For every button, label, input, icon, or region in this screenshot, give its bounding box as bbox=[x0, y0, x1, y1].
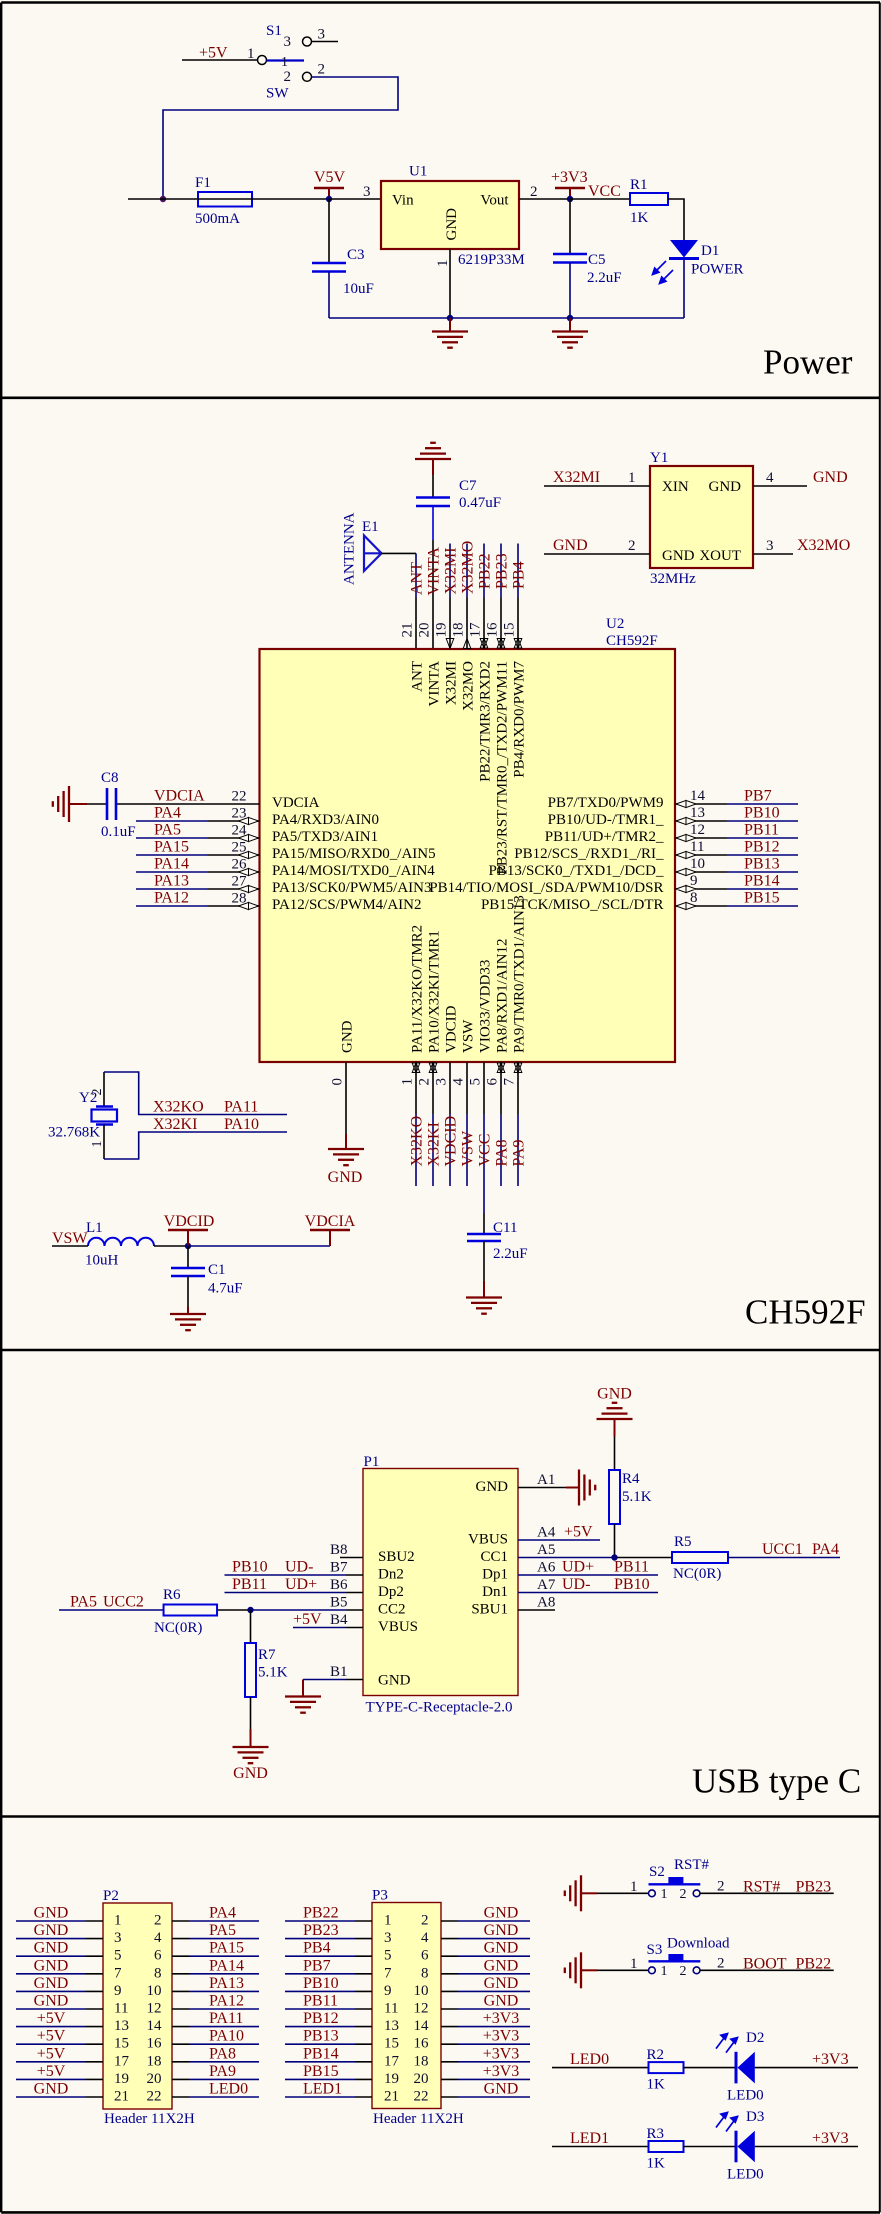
svg-text:2: 2 bbox=[421, 1913, 429, 1929]
ground U2 pin0 bbox=[328, 1134, 364, 1165]
svg-text:3: 3 bbox=[766, 538, 774, 554]
svg-text:PA11/X32KO/TMR2: PA11/X32KO/TMR2 bbox=[410, 925, 426, 1053]
svg-text:E1: E1 bbox=[362, 519, 379, 535]
wire U2 pin 4 stub bbox=[466, 1062, 468, 1186]
U2 pin 5 bbox=[468, 960, 494, 1086]
svg-text:22: 22 bbox=[147, 2089, 162, 2105]
LED D3 bbox=[716, 2109, 764, 2183]
svg-text:32MHz: 32MHz bbox=[650, 571, 696, 587]
svg-text:14: 14 bbox=[414, 2018, 430, 2034]
svg-text:GND: GND bbox=[34, 1922, 69, 1939]
U2 pin 13 PB10 bbox=[548, 805, 798, 829]
svg-text:27: 27 bbox=[232, 874, 248, 890]
svg-text:5: 5 bbox=[384, 1948, 392, 1964]
svg-text:GND: GND bbox=[34, 2081, 69, 2098]
svg-text:15: 15 bbox=[114, 2036, 129, 2052]
svg-text:GND: GND bbox=[484, 2081, 519, 2098]
U2 pin 19 bbox=[434, 623, 460, 706]
svg-text:+5V: +5V bbox=[564, 1524, 593, 1541]
wire S1 pin3 stub bbox=[312, 41, 339, 43]
svg-text:PA10/X32KI/TMR1: PA10/X32KI/TMR1 bbox=[427, 930, 443, 1053]
svg-text:Header 11X2H: Header 11X2H bbox=[104, 2111, 195, 2127]
ground below C1 bbox=[170, 1307, 206, 1330]
P3 pin 21 net LED1 bbox=[285, 2081, 399, 2105]
svg-text:4: 4 bbox=[421, 1930, 429, 1946]
wire left stub bbox=[128, 198, 198, 200]
svg-text:PB7: PB7 bbox=[744, 788, 772, 805]
ground left of S3 bbox=[565, 1952, 597, 1988]
svg-text:PB4: PB4 bbox=[303, 1940, 331, 1957]
svg-text:1K: 1K bbox=[647, 2077, 666, 2093]
svg-text:PA11: PA11 bbox=[224, 1099, 258, 1116]
P1 pin B1 GND bbox=[303, 1664, 411, 1689]
crystal Y2 32.768K bbox=[48, 1072, 117, 1159]
svg-text:10: 10 bbox=[690, 856, 705, 872]
P3 pin 18 net +3V3 bbox=[414, 2045, 531, 2069]
inductor L1 10uH bbox=[52, 1220, 154, 1269]
svg-text:GND: GND bbox=[34, 1993, 69, 2010]
wire +5V to S1 pin1 bbox=[182, 59, 258, 61]
svg-text:UCC1: UCC1 bbox=[762, 1541, 803, 1558]
ground below U1 bbox=[432, 318, 468, 348]
svg-text:Dn1: Dn1 bbox=[482, 1584, 508, 1600]
svg-text:21: 21 bbox=[400, 623, 416, 638]
P3 pin 20 net +3V3 bbox=[414, 2063, 531, 2087]
wire VDCID to VDCIA bbox=[188, 1245, 330, 1247]
wire Y2 pin1 to X32KI bbox=[104, 1132, 287, 1159]
ground above C7 bbox=[415, 443, 451, 475]
svg-text:4.7uF: 4.7uF bbox=[208, 1281, 243, 1297]
svg-text:VDCID: VDCID bbox=[444, 1005, 460, 1053]
svg-text:9: 9 bbox=[384, 1983, 392, 1999]
ground right of A1 bbox=[566, 1470, 595, 1506]
svg-text:20: 20 bbox=[414, 2071, 429, 2087]
junction at F1 input bbox=[160, 196, 166, 202]
wire U1 pin1 down bbox=[449, 249, 451, 318]
svg-text:B6: B6 bbox=[330, 1577, 348, 1593]
U2 pin 1 bbox=[400, 925, 426, 1086]
P2 pin 19 net +5V bbox=[16, 2063, 129, 2087]
svg-text:Download: Download bbox=[667, 1936, 730, 1952]
P1 pin B8 SBU2 bbox=[330, 1542, 415, 1565]
resistor R3 1K bbox=[647, 2126, 684, 2172]
capacitor C3 bbox=[312, 199, 374, 318]
svg-text:R6: R6 bbox=[163, 1587, 181, 1603]
svg-text:LED0: LED0 bbox=[209, 2081, 248, 2098]
P3 pin 1 net PB22 bbox=[285, 1905, 392, 1929]
wire D3 to +3V3 bbox=[755, 2146, 858, 2148]
wire junction to U1 pin3 bbox=[329, 198, 381, 200]
svg-text:20: 20 bbox=[147, 2071, 162, 2087]
svg-text:PA13: PA13 bbox=[209, 1975, 244, 1992]
switch S3 Download bbox=[630, 1954, 725, 1979]
P3 pin 6 net GND bbox=[421, 1940, 530, 1964]
P3 pin 3 net PB23 bbox=[285, 1922, 392, 1946]
svg-text:1: 1 bbox=[435, 260, 451, 268]
svg-text:PA9/TMR0/TXD1/AIN13: PA9/TMR0/TXD1/AIN13 bbox=[512, 895, 528, 1053]
svg-text:1: 1 bbox=[384, 1913, 392, 1929]
U2 pin 27 PA13 bbox=[136, 873, 431, 897]
svg-text:PA10: PA10 bbox=[209, 2028, 244, 2045]
svg-text:B8: B8 bbox=[330, 1542, 348, 1558]
U2 pin 20 bbox=[417, 623, 443, 707]
P2 pin 20 net PA9 bbox=[147, 2063, 260, 2087]
svg-text:VINTA: VINTA bbox=[427, 661, 443, 707]
svg-text:0.1uF: 0.1uF bbox=[101, 824, 136, 840]
svg-text:C8: C8 bbox=[101, 770, 119, 786]
svg-text:GND: GND bbox=[34, 1905, 69, 1922]
wire S3 pin2 to net bbox=[700, 1969, 834, 1971]
svg-text:XIN: XIN bbox=[662, 479, 689, 495]
svg-text:2.2uF: 2.2uF bbox=[493, 1246, 528, 1262]
svg-text:VSW: VSW bbox=[52, 1230, 88, 1247]
svg-text:24: 24 bbox=[232, 823, 248, 839]
svg-text:A8: A8 bbox=[537, 1595, 555, 1611]
U2 pin 22 VDCIA bbox=[117, 788, 320, 812]
P3 pin 16 net +3V3 bbox=[414, 2028, 531, 2052]
svg-text:R7: R7 bbox=[258, 1647, 276, 1663]
wire gnd to R4 bbox=[614, 1437, 616, 1471]
svg-text:GND: GND bbox=[484, 1975, 519, 1992]
P1 pin A6 Dp1 bbox=[482, 1559, 658, 1583]
wire F1 to junction bbox=[252, 198, 329, 200]
resistor R6 NC(0R) bbox=[154, 1587, 217, 1636]
svg-text:+3V3: +3V3 bbox=[483, 2010, 520, 2027]
svg-text:26: 26 bbox=[232, 857, 248, 873]
svg-text:3: 3 bbox=[363, 184, 371, 200]
svg-text:PA15: PA15 bbox=[209, 1940, 244, 1957]
U2 pin 2 bbox=[417, 930, 443, 1085]
P3 pin 8 net GND bbox=[421, 1957, 530, 1981]
wire S2 pin2 to net bbox=[700, 1892, 834, 1894]
resistor R4 5.1K bbox=[609, 1470, 652, 1524]
svg-text:6219P33M: 6219P33M bbox=[458, 252, 525, 268]
U2 pin 16 bbox=[485, 622, 511, 875]
svg-text:PA8: PA8 bbox=[209, 2045, 236, 2062]
svg-text:C5: C5 bbox=[588, 252, 606, 268]
P1 pin B7 Dn2 bbox=[225, 1559, 404, 1583]
svg-text:28: 28 bbox=[232, 891, 247, 907]
wire gnd to S3 pin1 bbox=[597, 1969, 648, 1971]
svg-text:CC2: CC2 bbox=[378, 1602, 406, 1618]
P3 pin 12 net GND bbox=[414, 1993, 531, 2017]
bottom power rail wire bbox=[329, 317, 684, 319]
svg-text:PB4: PB4 bbox=[511, 561, 528, 589]
svg-text:PA4: PA4 bbox=[812, 1541, 839, 1558]
svg-text:TYPE-C-Receptacle-2.0: TYPE-C-Receptacle-2.0 bbox=[366, 1700, 513, 1716]
resistor R1 1K bbox=[630, 177, 668, 226]
svg-text:Vout: Vout bbox=[480, 193, 509, 209]
svg-text:VCC: VCC bbox=[477, 1134, 494, 1167]
U2 pin 24 PA5 bbox=[136, 822, 378, 846]
ground left of C8 bbox=[53, 786, 87, 822]
power flag VDCID bbox=[168, 1230, 208, 1246]
svg-text:CH592F: CH592F bbox=[745, 1293, 866, 1332]
svg-text:1: 1 bbox=[661, 1887, 668, 1902]
svg-text:17: 17 bbox=[384, 2053, 400, 2069]
P1 pin A4 VBUS bbox=[468, 1524, 600, 1548]
P2 pin 7 net GND bbox=[16, 1957, 122, 1981]
svg-text:2: 2 bbox=[90, 1089, 105, 1096]
svg-text:PB7/TXD0/PWM9: PB7/TXD0/PWM9 bbox=[548, 795, 664, 811]
P2 pin 16 net PA10 bbox=[147, 2028, 260, 2052]
P2 pin 9 net GND bbox=[16, 1975, 122, 1999]
svg-text:7: 7 bbox=[114, 1965, 122, 1981]
U2 pin 11 PB12 bbox=[514, 839, 798, 863]
antenna E1 bbox=[342, 512, 382, 585]
P2 pin 2 net PA4 bbox=[154, 1905, 259, 1929]
svg-text:X32KI: X32KI bbox=[426, 1122, 443, 1166]
P2 pin 1 net GND bbox=[16, 1905, 122, 1929]
svg-text:ANT: ANT bbox=[410, 661, 426, 692]
svg-text:C3: C3 bbox=[347, 247, 365, 263]
svg-text:R4: R4 bbox=[622, 1471, 640, 1487]
svg-text:2: 2 bbox=[154, 1913, 162, 1929]
switch S1 bbox=[247, 23, 325, 102]
wire U2 pin 5 stub bbox=[483, 1062, 485, 1213]
P1 pin B4 VBUS bbox=[293, 1611, 418, 1635]
svg-text:PB11: PB11 bbox=[744, 822, 779, 839]
svg-text:22: 22 bbox=[414, 2089, 429, 2105]
svg-text:GND: GND bbox=[34, 1940, 69, 1957]
svg-text:F1: F1 bbox=[195, 175, 211, 191]
regulator U1 6219P33M bbox=[381, 164, 525, 269]
P2 pin 11 net GND bbox=[16, 1993, 128, 2017]
svg-text:500mA: 500mA bbox=[195, 211, 240, 227]
svg-text:PB12: PB12 bbox=[744, 839, 780, 856]
svg-text:UD+: UD+ bbox=[285, 1576, 317, 1593]
wire D2 to +3V3 bbox=[755, 2067, 858, 2069]
wire R5 to UCC1 bbox=[728, 1557, 840, 1559]
wire R2 to D2 bbox=[684, 2067, 736, 2069]
svg-text:+3V3: +3V3 bbox=[551, 169, 588, 186]
svg-text:PA12: PA12 bbox=[154, 890, 189, 907]
svg-text:2: 2 bbox=[628, 538, 636, 554]
svg-text:VDCIA: VDCIA bbox=[272, 795, 320, 811]
svg-text:C1: C1 bbox=[208, 1262, 226, 1278]
svg-text:12: 12 bbox=[147, 2001, 162, 2017]
svg-text:VDCID: VDCID bbox=[164, 1213, 215, 1230]
svg-text:P1: P1 bbox=[364, 1454, 380, 1470]
P3 pin 4 net GND bbox=[421, 1922, 530, 1946]
svg-text:+3V3: +3V3 bbox=[812, 2130, 849, 2147]
svg-text:VSW: VSW bbox=[460, 1130, 477, 1166]
svg-text:PB23: PB23 bbox=[494, 553, 511, 589]
svg-text:2: 2 bbox=[680, 1964, 687, 1979]
P3 pin 17 net PB14 bbox=[285, 2045, 400, 2069]
svg-text:ANT: ANT bbox=[409, 562, 426, 595]
svg-text:GND: GND bbox=[378, 1673, 411, 1689]
capacitor C11 2.2uF bbox=[467, 1213, 528, 1281]
svg-text:PA14/MOSI/TXD0_/AIN4: PA14/MOSI/TXD0_/AIN4 bbox=[272, 863, 435, 879]
svg-text:S2: S2 bbox=[649, 1864, 665, 1880]
P2 pin 6 net PA15 bbox=[154, 1940, 259, 1964]
svg-text:GND: GND bbox=[34, 1975, 69, 1992]
svg-text:V5V: V5V bbox=[314, 169, 346, 186]
svg-text:GND: GND bbox=[476, 1479, 509, 1495]
svg-text:B5: B5 bbox=[330, 1595, 348, 1611]
svg-text:S1: S1 bbox=[266, 23, 282, 39]
svg-text:3: 3 bbox=[434, 1078, 450, 1086]
U2 pin 15 bbox=[502, 623, 528, 778]
Y1 pin 2 wire net GND bbox=[544, 553, 650, 555]
P2 pin 5 net GND bbox=[16, 1940, 122, 1964]
svg-text:C7: C7 bbox=[459, 478, 477, 494]
svg-text:17: 17 bbox=[468, 622, 484, 638]
svg-text:LED1: LED1 bbox=[303, 2081, 342, 2098]
svg-text:SBU1: SBU1 bbox=[471, 1602, 508, 1618]
svg-text:PB11: PB11 bbox=[232, 1576, 267, 1593]
svg-text:Y1: Y1 bbox=[650, 450, 668, 466]
wire U1 pin2 to VCC node bbox=[519, 198, 570, 200]
svg-text:1: 1 bbox=[247, 46, 255, 62]
svg-text:R3: R3 bbox=[647, 2126, 665, 2142]
wire net PB4 to U2 top bbox=[517, 544, 519, 650]
wire R1 to D1 bbox=[668, 199, 684, 240]
P3 pin 10 net GND bbox=[414, 1975, 531, 1999]
svg-text:L1: L1 bbox=[86, 1220, 103, 1236]
svg-text:UCC2: UCC2 bbox=[103, 1594, 144, 1611]
svg-text:PB22: PB22 bbox=[303, 1905, 339, 1922]
svg-text:11: 11 bbox=[384, 2001, 398, 2017]
svg-text:PB12: PB12 bbox=[303, 2010, 339, 2027]
svg-text:B4: B4 bbox=[330, 1612, 348, 1628]
wire D1 to rail bbox=[683, 260, 685, 318]
svg-text:15: 15 bbox=[502, 623, 518, 638]
svg-text:X32KO: X32KO bbox=[153, 1099, 204, 1116]
svg-text:ANTENNA: ANTENNA bbox=[342, 512, 358, 585]
svg-text:+5V: +5V bbox=[37, 2045, 66, 2062]
svg-text:VDCIA: VDCIA bbox=[154, 788, 205, 805]
svg-text:S3: S3 bbox=[647, 1942, 663, 1958]
svg-text:X32KI: X32KI bbox=[153, 1116, 197, 1133]
svg-text:PA13/SCK0/PWM5/AIN3: PA13/SCK0/PWM5/AIN3 bbox=[272, 880, 431, 896]
svg-text:R1: R1 bbox=[630, 177, 648, 193]
wire gnd to S2 pin1 bbox=[597, 1892, 648, 1894]
svg-text:18: 18 bbox=[147, 2053, 162, 2069]
svg-text:19: 19 bbox=[114, 2071, 129, 2087]
svg-text:19: 19 bbox=[434, 623, 450, 638]
svg-text:16: 16 bbox=[414, 2036, 430, 2052]
wire LED1 to R3 bbox=[552, 2146, 649, 2148]
P2 pin 15 net +5V bbox=[16, 2028, 129, 2052]
svg-text:2: 2 bbox=[417, 1078, 433, 1086]
svg-text:RST#: RST# bbox=[674, 1857, 710, 1873]
svg-text:Vin: Vin bbox=[392, 193, 414, 209]
wire C7 to U2 VINTA bbox=[432, 506, 434, 649]
U2 pin 0 bbox=[330, 1020, 356, 1085]
svg-text:12: 12 bbox=[690, 822, 705, 838]
svg-text:PA12: PA12 bbox=[209, 1993, 244, 2010]
svg-text:PA14: PA14 bbox=[209, 1957, 244, 1974]
junction V5V bbox=[326, 196, 332, 202]
svg-text:GND: GND bbox=[484, 1957, 519, 1974]
wire R3 to D3 bbox=[684, 2146, 736, 2148]
P1 pin B5 CC2 bbox=[59, 1594, 406, 1618]
P2 pin 3 net GND bbox=[16, 1922, 122, 1946]
P1 pin A7 Dn1 bbox=[482, 1576, 658, 1600]
P3 pin 14 net +3V3 bbox=[414, 2010, 531, 2034]
svg-text:8: 8 bbox=[690, 890, 698, 906]
ground below C5 bbox=[552, 318, 588, 348]
wire net X32MI to U2 top bbox=[449, 544, 451, 650]
U2 pin 3 bbox=[434, 1005, 460, 1085]
svg-text:Dn2: Dn2 bbox=[378, 1567, 404, 1583]
svg-text:Header 11X2H: Header 11X2H bbox=[373, 2111, 464, 2127]
P2 pin 21 net GND bbox=[16, 2081, 129, 2105]
svg-text:VDCIA: VDCIA bbox=[305, 1213, 356, 1230]
svg-text:16: 16 bbox=[485, 622, 501, 638]
USB receptacle P1 bbox=[363, 1454, 518, 1716]
svg-text:PA9: PA9 bbox=[511, 1140, 528, 1167]
svg-text:1: 1 bbox=[661, 1964, 668, 1979]
svg-text:LED1: LED1 bbox=[570, 2130, 609, 2147]
svg-text:Dp2: Dp2 bbox=[378, 1584, 404, 1600]
P2 pin 12 net PA12 bbox=[147, 1993, 260, 2017]
svg-text:PA14: PA14 bbox=[154, 856, 189, 873]
svg-text:14: 14 bbox=[147, 2018, 163, 2034]
svg-text:A7: A7 bbox=[537, 1577, 556, 1593]
svg-text:A5: A5 bbox=[537, 1542, 555, 1558]
svg-text:+3V3: +3V3 bbox=[483, 2028, 520, 2045]
svg-text:PB22: PB22 bbox=[477, 553, 494, 589]
svg-text:PB23/RST/TMR0_/TXD2/PWM11: PB23/RST/TMR0_/TXD2/PWM11 bbox=[495, 661, 511, 875]
svg-text:1: 1 bbox=[628, 470, 636, 486]
svg-text:POWER: POWER bbox=[691, 262, 744, 278]
svg-text:13: 13 bbox=[690, 805, 705, 821]
svg-text:+5V: +5V bbox=[37, 2010, 66, 2027]
wire S1 pin2 to fuse line bbox=[163, 77, 398, 199]
svg-text:+5V: +5V bbox=[199, 45, 228, 62]
svg-text:LED0: LED0 bbox=[727, 2167, 764, 2183]
svg-text:PA5: PA5 bbox=[209, 1922, 236, 1939]
svg-text:4: 4 bbox=[451, 1078, 467, 1086]
crystal Y1 32MHz bbox=[650, 450, 753, 587]
svg-text:6: 6 bbox=[485, 1078, 501, 1086]
svg-text:A4: A4 bbox=[537, 1525, 556, 1541]
svg-text:PA8: PA8 bbox=[494, 1140, 511, 1167]
svg-text:PB10: PB10 bbox=[744, 805, 780, 822]
svg-text:X32MO: X32MO bbox=[460, 541, 477, 594]
svg-text:0.47uF: 0.47uF bbox=[459, 495, 501, 511]
U2 pin 9 PB14 bbox=[429, 873, 798, 897]
svg-text:PA10: PA10 bbox=[224, 1116, 259, 1133]
capacitor C1 4.7uF bbox=[171, 1246, 243, 1307]
svg-text:CH592F: CH592F bbox=[606, 633, 658, 649]
wire VCC to R1 bbox=[570, 198, 630, 200]
svg-text:GND: GND bbox=[662, 548, 695, 564]
P2 pin 18 net PA8 bbox=[147, 2045, 260, 2069]
P2 pin 14 net PA11 bbox=[147, 2010, 260, 2034]
svg-text:X32MI: X32MI bbox=[444, 661, 460, 705]
svg-text:VSW: VSW bbox=[461, 1019, 477, 1053]
ground flag above R4 bbox=[597, 1403, 633, 1437]
svg-text:X32MI: X32MI bbox=[443, 547, 460, 594]
svg-text:8: 8 bbox=[154, 1965, 162, 1981]
svg-text:U1: U1 bbox=[409, 164, 427, 180]
svg-text:UD-: UD- bbox=[285, 1559, 313, 1576]
svg-text:1: 1 bbox=[114, 1913, 122, 1929]
U2 pin 23 PA4 bbox=[136, 805, 379, 829]
svg-text:2: 2 bbox=[680, 1887, 687, 1902]
svg-text:1: 1 bbox=[400, 1078, 416, 1086]
P1 pin B6 Dp2 bbox=[225, 1576, 404, 1600]
svg-text:R2: R2 bbox=[647, 2047, 665, 2063]
svg-text:1K: 1K bbox=[630, 210, 649, 226]
svg-text:GND: GND bbox=[233, 1765, 268, 1782]
svg-text:PA15: PA15 bbox=[154, 839, 189, 856]
svg-text:23: 23 bbox=[232, 806, 247, 822]
